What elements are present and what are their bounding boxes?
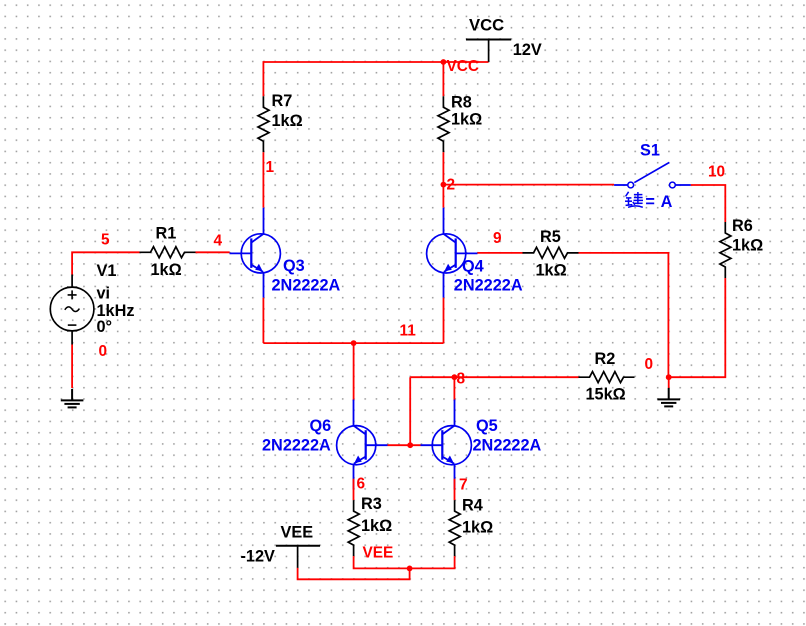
svg-text:-12V: -12V <box>241 548 276 566</box>
svg-text:2N2222A: 2N2222A <box>473 437 542 455</box>
wire Q5 emitter to R4 <box>454 479 456 501</box>
svg-text:0: 0 <box>99 343 108 360</box>
node 8 junction <box>452 374 458 380</box>
resistor R8 1k <box>438 94 482 153</box>
svg-text:=: = <box>645 193 655 211</box>
wire node 11 to Q6 collector <box>353 343 355 401</box>
transistor Q6 2N2222A (mirrored) <box>262 400 388 490</box>
svg-text:1kΩ: 1kΩ <box>151 261 182 279</box>
source V1 vi 1kHz <box>50 262 134 345</box>
svg-text:1kΩ: 1kΩ <box>536 262 567 280</box>
svg-text:0: 0 <box>645 356 654 373</box>
svg-text:A: A <box>661 193 673 211</box>
svg-text:6: 6 <box>357 476 366 493</box>
svg-text:1kΩ: 1kΩ <box>462 519 493 537</box>
resistor R6 1k <box>720 217 763 278</box>
wire R7 to Q3 collector <box>262 152 264 207</box>
wire V1 top to R1 <box>72 252 139 274</box>
svg-text:VEE: VEE <box>281 524 314 542</box>
wire base row Q6-Q5 <box>388 444 421 446</box>
resistor R3 1k <box>348 495 392 556</box>
transistor Q4 2N2222A (mirrored) <box>427 208 523 298</box>
svg-text:S1: S1 <box>640 142 660 160</box>
wire R8 top <box>442 62 444 96</box>
wire switch to R6 <box>691 185 726 222</box>
wire node 8 row <box>410 376 578 378</box>
svg-text:VCC: VCC <box>447 58 480 75</box>
svg-text:Q6: Q6 <box>310 417 332 435</box>
transistor Q3 2N2222A <box>230 208 341 298</box>
wire V1 bottom to ground <box>71 345 73 389</box>
ground (right, node 0) <box>657 388 680 407</box>
svg-text:10: 10 <box>708 164 725 181</box>
svg-text:V1: V1 <box>97 262 117 280</box>
svg-text:1kΩ: 1kΩ <box>732 237 763 255</box>
wire R6 bottom to node 0 <box>669 278 726 377</box>
resistor R4 1k <box>449 497 493 557</box>
label 键 = A <box>625 192 643 208</box>
svg-text:15kΩ: 15kΩ <box>586 386 626 404</box>
power symbol VCC 12V <box>466 17 542 62</box>
svg-text:1kΩ: 1kΩ <box>451 111 482 129</box>
node 11 junction <box>351 340 357 346</box>
wire R5 to R2/R6 column <box>579 253 669 377</box>
svg-text:R5: R5 <box>540 228 561 246</box>
svg-text:1: 1 <box>266 159 275 176</box>
svg-text:12V: 12V <box>513 41 542 59</box>
wire node2 to switch <box>443 184 614 186</box>
resistor R5 1k <box>523 228 579 280</box>
svg-text:1kΩ: 1kΩ <box>361 517 392 535</box>
svg-text:7: 7 <box>459 477 468 494</box>
svg-text:11: 11 <box>400 323 417 340</box>
junction at ground tap <box>666 374 672 380</box>
wire Q4 emitter down <box>443 298 445 343</box>
svg-text:4: 4 <box>214 233 223 250</box>
svg-text:0°: 0° <box>97 318 113 336</box>
wire bottom row R3-R4 <box>354 556 455 568</box>
svg-text:R1: R1 <box>156 225 177 243</box>
svg-text:VCC: VCC <box>469 17 504 35</box>
wire node8 corner down to base row <box>409 377 411 445</box>
svg-text:VEE: VEE <box>363 545 394 562</box>
wire top rail VCC <box>263 62 488 96</box>
svg-text:R2: R2 <box>595 350 616 368</box>
svg-text:2N2222A: 2N2222A <box>272 277 341 295</box>
wire Q4 base to R5 <box>477 252 522 254</box>
svg-text:2N2222A: 2N2222A <box>454 277 523 295</box>
wire R8 to node 2 <box>442 152 444 184</box>
svg-text:Q4: Q4 <box>462 258 484 276</box>
svg-text:8: 8 <box>457 371 466 388</box>
transistor Q5 2N2222A <box>421 400 542 490</box>
svg-text:vi: vi <box>97 285 111 303</box>
power symbol VEE -12V <box>241 524 321 568</box>
wire VEE hookup <box>298 568 410 580</box>
wire node 11 row <box>263 342 443 344</box>
wire Q6 emitter to R3 <box>353 479 355 501</box>
resistor R1 1k <box>140 225 196 280</box>
svg-text:R4: R4 <box>462 497 483 515</box>
wire Q3 emitter down <box>262 298 264 343</box>
svg-text:R8: R8 <box>451 94 472 112</box>
svg-text:1kΩ: 1kΩ <box>272 112 303 130</box>
svg-text:2N2222A: 2N2222A <box>262 437 331 455</box>
ground (under V1) <box>61 389 84 408</box>
junction at VCC rail <box>441 59 447 65</box>
svg-text:Q3: Q3 <box>283 257 305 275</box>
wire ground stem red part <box>668 377 670 388</box>
junction bottom row <box>407 566 413 572</box>
svg-text:Q5: Q5 <box>476 417 498 435</box>
svg-text:R7: R7 <box>272 92 293 110</box>
svg-text:R6: R6 <box>732 217 753 235</box>
svg-text:9: 9 <box>493 230 502 247</box>
svg-text:R3: R3 <box>361 495 382 513</box>
svg-text:5: 5 <box>101 232 110 249</box>
node 2 junction <box>441 182 447 188</box>
switch S1 <box>614 142 691 212</box>
wire R1 to Q3 base <box>196 251 230 253</box>
junction base row <box>407 442 413 448</box>
resistor R2 15k <box>579 350 635 404</box>
wire Q5 collector <box>453 377 455 401</box>
wire node2 to Q4 collector <box>442 185 444 208</box>
resistor R7 1k <box>258 92 303 152</box>
